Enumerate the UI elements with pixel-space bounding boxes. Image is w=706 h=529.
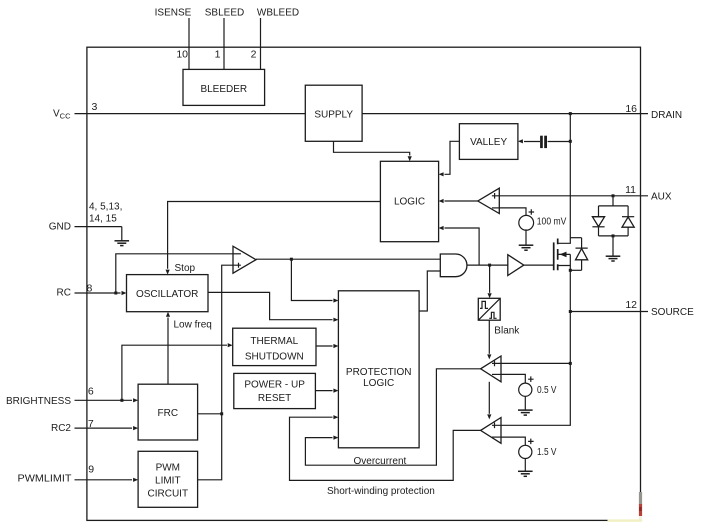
svg-text:Short-winding protection: Short-winding protection — [327, 486, 435, 497]
svg-text:POWER - UP: POWER - UP — [244, 380, 305, 391]
svg-text:11: 11 — [625, 184, 636, 196]
svg-text:VALLEY: VALLEY — [470, 137, 507, 148]
svg-text:Overcurrent: Overcurrent — [354, 456, 407, 467]
svg-text:Low freq: Low freq — [174, 319, 212, 330]
svg-text:SHUTDOWN: SHUTDOWN — [245, 351, 304, 362]
svg-text:PWM: PWM — [156, 462, 180, 473]
svg-text:14, 15: 14, 15 — [89, 214, 117, 225]
svg-text:9: 9 — [88, 463, 94, 475]
svg-text:LOGIC: LOGIC — [363, 378, 394, 389]
svg-text:Blank: Blank — [494, 325, 520, 336]
svg-text:16: 16 — [625, 103, 637, 115]
svg-text:THERMAL: THERMAL — [250, 336, 298, 347]
svg-text:GND: GND — [49, 221, 71, 232]
svg-text:BLEEDER: BLEEDER — [200, 84, 247, 95]
svg-text:RESET: RESET — [258, 393, 291, 404]
svg-text:100 mV: 100 mV — [537, 217, 567, 228]
svg-text:12: 12 — [625, 299, 637, 311]
svg-text:CIRCUIT: CIRCUIT — [148, 488, 189, 499]
svg-text:SBLEED: SBLEED — [205, 8, 244, 19]
svg-text:RC: RC — [57, 287, 71, 298]
svg-text:SOURCE: SOURCE — [651, 307, 694, 318]
svg-text:BRIGHTNESS: BRIGHTNESS — [6, 396, 71, 407]
svg-text:AUX: AUX — [651, 192, 672, 203]
svg-text:8: 8 — [87, 283, 93, 295]
svg-text:PWMLIMIT: PWMLIMIT — [18, 474, 72, 485]
svg-text:RC2: RC2 — [51, 423, 71, 434]
svg-text:4, 5,13,: 4, 5,13, — [89, 202, 122, 213]
svg-text:7: 7 — [88, 418, 94, 430]
svg-text:Stop: Stop — [175, 263, 196, 274]
svg-text:SUPPLY: SUPPLY — [314, 109, 353, 120]
svg-text:LIMIT: LIMIT — [155, 475, 181, 486]
svg-text:DRAIN: DRAIN — [651, 110, 682, 121]
svg-text:0.5 V: 0.5 V — [537, 385, 557, 396]
svg-text:WBLEED: WBLEED — [257, 8, 299, 19]
svg-text:OSCILLATOR: OSCILLATOR — [136, 289, 198, 300]
svg-text:PROTECTION: PROTECTION — [346, 367, 412, 378]
svg-text:2: 2 — [251, 49, 257, 61]
svg-text:1.5 V: 1.5 V — [537, 447, 557, 458]
svg-text:FRC: FRC — [158, 408, 179, 419]
svg-text:6: 6 — [88, 386, 94, 398]
svg-text:ISENSE: ISENSE — [155, 8, 192, 19]
svg-text:LOGIC: LOGIC — [394, 197, 425, 208]
svg-text:3: 3 — [92, 101, 98, 113]
svg-text:10: 10 — [176, 49, 188, 61]
svg-text:1: 1 — [215, 49, 221, 61]
